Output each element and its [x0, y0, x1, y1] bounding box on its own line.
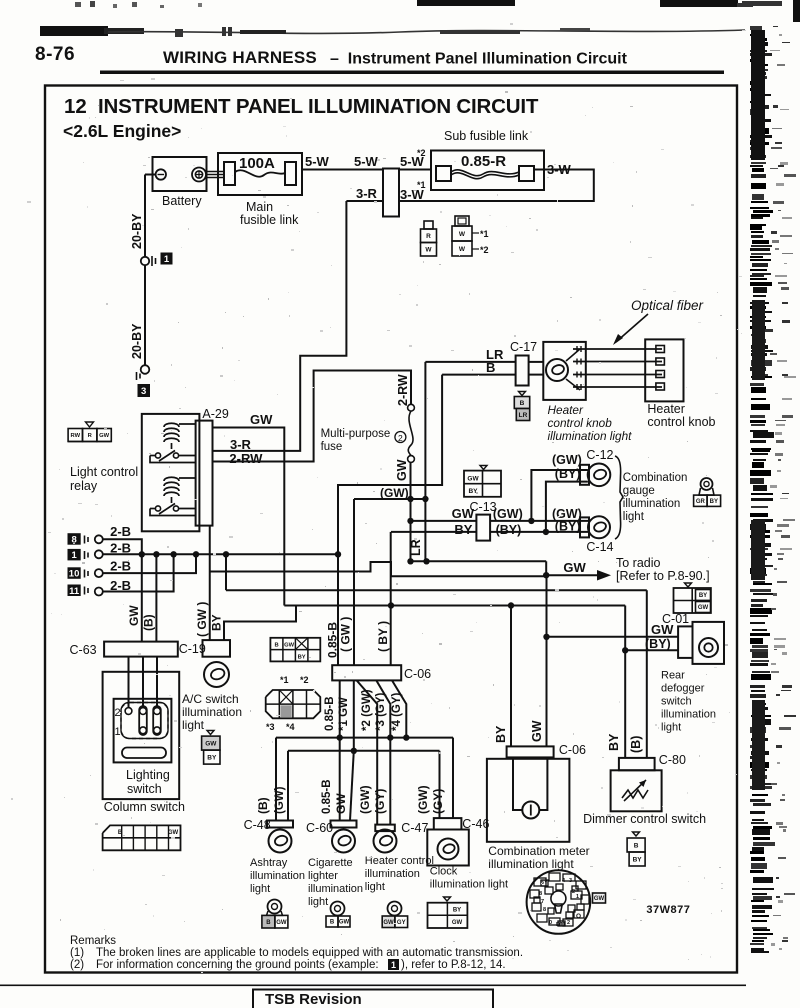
ground point 3: [141, 365, 150, 374]
svg-text:1: 1: [164, 254, 170, 265]
svg-text:Column switch: Column switch: [104, 800, 185, 814]
svg-text:GW: GW: [452, 920, 463, 926]
svg-text:switch: switch: [661, 696, 692, 708]
wire BY vertical to C-06: [390, 536, 392, 665]
relay A-29 box: [142, 414, 200, 531]
svg-text:Dimmer control switch: Dimmer control switch: [583, 812, 706, 826]
wire battery positive to main fusible link: [206, 171, 224, 173]
svg-text:B: B: [266, 920, 271, 926]
svg-text:GW: GW: [530, 720, 544, 742]
svg-text:B: B: [486, 360, 495, 375]
junction connector block: [383, 169, 399, 217]
svg-text:Cigarette: Cigarette: [308, 857, 353, 869]
svg-text:BY: BY: [699, 593, 707, 599]
svg-text:Rear: Rear: [661, 670, 685, 682]
wire LR to C-17: [425, 361, 515, 363]
svg-text:GW: GW: [594, 896, 605, 902]
svg-text:Light control: Light control: [70, 465, 138, 479]
connector icon R/W near junction: [424, 221, 433, 229]
svg-text:control knob: control knob: [647, 415, 715, 429]
wires C-63 to lighting switch: [128, 657, 130, 708]
svg-text:BY: BY: [207, 754, 217, 761]
svg-text:*1: *1: [480, 229, 489, 239]
wire 0.85-B vertical to C-06: [337, 554, 339, 665]
svg-text:light: light: [661, 722, 681, 734]
svg-text:(BY): (BY): [645, 637, 671, 651]
svg-text:GW: GW: [250, 412, 273, 427]
svg-text:GW: GW: [467, 476, 479, 483]
bulb rear defogger: [699, 638, 718, 657]
heater control knob box: [645, 339, 683, 401]
dimmer rheostat: [622, 790, 648, 798]
svg-text:2-RW: 2-RW: [396, 374, 410, 406]
steering column connector view: [527, 870, 591, 934]
wire BY up to C-12: [546, 482, 588, 532]
svg-text:C-12: C-12: [586, 448, 613, 462]
ground lead 10: [68, 567, 81, 579]
svg-text:2-B: 2-B: [110, 578, 131, 593]
svg-text:(BY): (BY): [555, 520, 581, 534]
ground lead 11: [68, 585, 81, 597]
svg-text:(GY): (GY): [431, 789, 445, 814]
svg-text:illumination: illumination: [623, 498, 681, 510]
ground lead 1: [68, 549, 81, 561]
svg-text:*2: *2: [480, 245, 489, 255]
svg-text:GW: GW: [127, 605, 141, 626]
svg-text:( GW ): ( GW ): [195, 602, 209, 637]
svg-text:defogger: defogger: [661, 683, 705, 695]
wire GW down to combination meter: [546, 576, 548, 746]
svg-text:Remarks: Remarks: [70, 935, 116, 947]
svg-text:*4: *4: [286, 722, 295, 732]
svg-text:Battery: Battery: [162, 194, 202, 208]
wires to cigarette lighter lamp C-60: [339, 738, 341, 821]
svg-text:12: 12: [64, 95, 87, 118]
svg-text:(B): (B): [256, 797, 270, 814]
svg-text:0.85-B: 0.85-B: [321, 779, 333, 814]
svg-text:illumination: illumination: [365, 868, 420, 880]
sub fusible link F2 0.85-R: [431, 151, 544, 191]
svg-text:O: O: [576, 913, 581, 920]
paper speckle noise: [331, 265, 332, 266]
svg-text:RW: RW: [71, 433, 81, 439]
main fusible link F1 100A: [218, 153, 302, 195]
svg-text:light: light: [365, 881, 385, 893]
svg-text:0.85-B: 0.85-B: [324, 696, 336, 731]
connector C-06 combination meter: [507, 746, 554, 757]
wires C-06 to lamp buses: [339, 680, 341, 737]
bulb combination meter: [522, 802, 539, 819]
svg-text:Sub fusible link: Sub fusible link: [444, 129, 529, 143]
svg-text:WIRING HARNESS: WIRING HARNESS: [163, 48, 317, 67]
svg-text:B: B: [275, 643, 279, 649]
wire 3-R to junction: [346, 200, 383, 202]
lamp bus 2: [288, 750, 440, 752]
ground icon B/LR below C-17: [519, 392, 526, 396]
wire GW up to C-12: [531, 470, 588, 521]
wire 2-B branch down: [225, 554, 227, 590]
ground point 1 on battery wire: [141, 257, 149, 265]
svg-text:C-01: C-01: [662, 612, 689, 626]
svg-text:*1: *1: [280, 675, 289, 685]
svg-text:*1 GW: *1 GW: [338, 697, 350, 731]
svg-text:Ashtray: Ashtray: [250, 857, 288, 869]
svg-text:2: 2: [567, 920, 570, 926]
svg-text:(GW): (GW): [274, 786, 286, 814]
svg-text:illumination: illumination: [661, 709, 716, 721]
lamp bus 1: [276, 737, 453, 739]
svg-text:A-29: A-29: [202, 407, 228, 421]
connector icon BY/GW near C-01: [685, 583, 692, 587]
svg-text:Optical fiber: Optical fiber: [631, 298, 704, 313]
svg-text:BY: BY: [298, 654, 306, 660]
svg-text:(B): (B): [142, 614, 156, 631]
svg-text:For information concerning the: For information concerning the ground po…: [96, 959, 379, 971]
relay contact 2: [155, 506, 160, 511]
svg-text:W: W: [459, 246, 466, 253]
wire B into C-63: [155, 554, 157, 641]
wire 20-BY battery to ground: [145, 174, 156, 176]
svg-text:11: 11: [69, 586, 80, 597]
svg-text:2-B: 2-B: [110, 541, 131, 556]
wires to clock lamp C-46: [452, 738, 454, 819]
svg-text:3-R: 3-R: [356, 186, 378, 201]
svg-text:(GW): (GW): [416, 785, 430, 814]
svg-text:Combination: Combination: [623, 472, 688, 484]
svg-text:1: 1: [71, 550, 77, 561]
svg-text:light: light: [308, 896, 328, 908]
svg-text:fuse: fuse: [321, 441, 343, 453]
svg-text:C-06: C-06: [404, 667, 431, 681]
svg-text:1: 1: [115, 726, 121, 738]
svg-text:8: 8: [539, 891, 542, 897]
svg-text:1: 1: [576, 894, 579, 900]
svg-text:B: B: [634, 842, 639, 849]
svg-text:C-17: C-17: [510, 340, 537, 354]
wire GW into C-19: [209, 526, 211, 641]
svg-text:2-RW: 2-RW: [229, 451, 263, 466]
svg-text:GY: GY: [397, 920, 406, 926]
svg-text:0.85-R: 0.85-R: [461, 153, 506, 170]
svg-text:C-47: C-47: [401, 821, 428, 835]
svg-text:20-BY: 20-BY: [130, 323, 144, 359]
svg-text:A/C switch: A/C switch: [182, 692, 239, 706]
svg-text:Clock: Clock: [430, 866, 458, 878]
ground lead 8: [68, 533, 81, 545]
svg-text:R: R: [426, 233, 431, 240]
svg-text:*4 (GY): *4 (GY): [391, 692, 403, 731]
wire 5-W junction to sub fusible link: [399, 169, 431, 171]
svg-text:5-W: 5-W: [354, 154, 379, 169]
lighting switch dashed link: [121, 703, 168, 739]
svg-text:Lighting: Lighting: [126, 768, 170, 782]
svg-text:LR: LR: [519, 412, 528, 419]
svg-text:TSB Revision: TSB Revision: [265, 991, 362, 1008]
svg-text:Heater: Heater: [548, 403, 584, 417]
svg-text:(GY): (GY): [373, 789, 387, 814]
svg-text:The broken lines are applicabl: The broken lines are applicable to model…: [96, 947, 523, 959]
svg-text:BY: BY: [453, 908, 461, 914]
svg-text:illumination: illumination: [308, 883, 363, 895]
svg-text:GW: GW: [334, 793, 348, 814]
svg-text:( BY ): ( BY ): [376, 621, 390, 652]
bracket combination gauge: [615, 456, 623, 539]
svg-text:20-BY: 20-BY: [130, 213, 144, 249]
svg-text:2-B: 2-B: [110, 559, 131, 574]
svg-text:(1): (1): [70, 947, 84, 959]
svg-text:8-76: 8-76: [35, 44, 75, 65]
TSB revision box: [253, 990, 493, 1008]
svg-text:BY: BY: [210, 614, 224, 631]
svg-text:LR: LR: [409, 539, 423, 556]
rear defogger switch box: [693, 622, 725, 664]
svg-text:10: 10: [69, 569, 80, 580]
svg-text:GR: GR: [696, 499, 706, 505]
svg-text:GW: GW: [205, 740, 217, 747]
socket icon below heater control: [388, 902, 402, 916]
diagram border frame: [45, 86, 737, 973]
svg-text:7: 7: [541, 899, 544, 905]
svg-text:BY: BY: [454, 522, 472, 537]
svg-text:BY: BY: [633, 856, 643, 863]
wire B to C-17: [442, 374, 515, 376]
connector icon 2x2 BY/GW below clock: [444, 897, 451, 901]
svg-text:5-W: 5-W: [305, 154, 330, 169]
small cell GW right of circle: [593, 893, 606, 903]
wire 2-B bus: [103, 553, 339, 555]
svg-text:BY: BY: [494, 725, 508, 743]
svg-text:37W877: 37W877: [646, 904, 690, 916]
svg-text:8: 8: [543, 907, 546, 913]
wire 5-W fusible link to junction: [302, 169, 383, 171]
svg-text:Main: Main: [246, 200, 273, 214]
ground icon GW/BY below A/C: [207, 731, 214, 735]
heater control knob illumination light box: [543, 342, 586, 400]
svg-text:[Refer to P.8-90.]: [Refer to P.8-90.]: [616, 569, 710, 583]
wire B to dimmer: [646, 590, 648, 758]
svg-text:2: 2: [398, 433, 403, 443]
connector icon B/GW/BY 4x2: [270, 638, 320, 662]
gauge socket icon GR/BY: [701, 478, 713, 490]
combination meter box: [487, 759, 570, 842]
svg-text:control knob: control knob: [548, 416, 613, 430]
connector icon GW/BY near C-13: [480, 466, 487, 470]
wires to ashtray lamp C-48: [275, 738, 277, 821]
wire GW to radio arrow: [546, 574, 601, 576]
wire BY to combination meter: [510, 606, 512, 747]
svg-text:<2.6L Engine>: <2.6L Engine>: [63, 121, 181, 141]
optical fibers: [573, 348, 662, 350]
header underline: [100, 71, 724, 75]
bulb A/C switch illumination: [204, 662, 229, 687]
svg-text:(GW): (GW): [358, 785, 372, 814]
svg-text:*3: *3: [266, 722, 275, 732]
wire GW through C-13 to C-14: [411, 520, 590, 522]
svg-text:B: B: [118, 830, 123, 836]
svg-text:W: W: [459, 231, 466, 238]
wire GW distribution to C-01: [226, 589, 647, 591]
svg-text:0: 0: [549, 920, 552, 926]
socket icon below ashtray: [268, 900, 282, 914]
svg-text:C-06: C-06: [559, 743, 586, 757]
svg-text:(GW): (GW): [493, 507, 523, 521]
wire GW main line A: [409, 560, 546, 562]
svg-text:3: 3: [141, 386, 146, 397]
svg-text:relay: relay: [70, 479, 98, 493]
svg-text:light: light: [182, 718, 205, 732]
svg-text:GW: GW: [168, 830, 179, 836]
svg-text:light: light: [250, 883, 270, 895]
svg-text:BY: BY: [710, 499, 718, 505]
relay contact 1: [155, 453, 160, 458]
svg-text:*2: *2: [300, 675, 309, 685]
svg-text:0.85-B: 0.85-B: [326, 622, 340, 658]
svg-text:2-B: 2-B: [110, 524, 131, 539]
dimmer control switch box: [611, 770, 662, 811]
svg-text:3: 3: [569, 878, 572, 884]
svg-text:GW: GW: [698, 605, 709, 611]
svg-text:GW: GW: [563, 560, 586, 575]
lighting switch slot: [122, 748, 166, 759]
svg-text:Combination meter: Combination meter: [488, 844, 589, 858]
svg-text:C-60: C-60: [306, 821, 333, 835]
scan noise right dark band: [751, 30, 765, 160]
svg-text:illumination: illumination: [250, 870, 305, 882]
svg-text:illumination: illumination: [182, 705, 242, 719]
svg-text:illumination light: illumination light: [548, 429, 633, 443]
svg-text:(BY): (BY): [496, 523, 522, 537]
svg-text:Heater: Heater: [647, 402, 685, 416]
svg-text:*1: *1: [417, 180, 426, 190]
svg-text:C-63: C-63: [70, 643, 97, 657]
svg-text:B: B: [520, 400, 525, 407]
svg-text:switch: switch: [127, 782, 162, 796]
connector C-06 instrument harness: [332, 665, 401, 680]
bulb heater control knob illumination: [546, 359, 568, 381]
lighting switch box: [114, 699, 172, 763]
svg-text:lighter: lighter: [308, 870, 338, 882]
wire GW vertical to C-06: [353, 499, 355, 665]
relay coil 1: [164, 423, 179, 427]
svg-text:( GW ): ( GW ): [339, 617, 353, 652]
wire BY distribution: [224, 606, 296, 641]
wire GW fuse down: [410, 462, 412, 561]
svg-text:2: 2: [572, 889, 575, 895]
svg-text:GW: GW: [383, 920, 394, 926]
wire GW jog from relay branch to radio junction: [210, 562, 546, 576]
svg-text:W: W: [425, 247, 432, 254]
svg-text:1: 1: [391, 960, 396, 970]
wire BY through C-13 to C-14: [391, 531, 589, 533]
svg-text:), refer to P.8-12, 14.: ), refer to P.8-12, 14.: [401, 959, 506, 971]
scan noise top bars: [417, 0, 515, 6]
wire GW into C-63: [141, 554, 143, 641]
wire B down from C-17 to ground bus: [338, 375, 442, 555]
svg-text:(BY): (BY): [555, 467, 581, 481]
light control relay connector icon: [86, 422, 94, 427]
svg-text:*2 (GW): *2 (GW): [361, 689, 373, 731]
svg-text:C-80: C-80: [659, 753, 686, 767]
column switch connector grid: [103, 825, 181, 850]
wire BY/GW into C-01: [624, 606, 626, 758]
connector icon W/W with ref marks: [455, 216, 469, 226]
svg-text:fusible link: fusible link: [240, 213, 299, 227]
svg-text:To radio: To radio: [616, 556, 661, 570]
svg-text:GW: GW: [276, 920, 287, 926]
svg-text:(GW): (GW): [552, 453, 582, 467]
svg-text:light: light: [623, 511, 645, 523]
svg-text:3-R: 3-R: [230, 437, 252, 452]
svg-text:D11: D11: [556, 922, 566, 928]
svg-text:Heater control: Heater control: [365, 855, 434, 867]
socket icon below cigarette lighter: [331, 902, 345, 916]
svg-text:– Instrument Panel Illuminati: – Instrument Panel Illumination Circuit: [330, 51, 628, 68]
ground icon B/BY below dimmer: [633, 832, 640, 836]
wire LR down from C-17: [424, 362, 426, 561]
column switch box: [103, 672, 180, 799]
svg-text:illumination light: illumination light: [488, 857, 574, 871]
svg-text:GW: GW: [99, 433, 110, 439]
svg-text:INSTRUMENT PANEL ILLUMINATION: INSTRUMENT PANEL ILLUMINATION CIRCUIT: [98, 95, 539, 118]
battery B1: [153, 157, 207, 191]
svg-text:GW: GW: [395, 459, 409, 481]
svg-text:(2): (2): [70, 959, 84, 971]
svg-text:BY: BY: [607, 733, 621, 751]
svg-text:Multi-purpose: Multi-purpose: [321, 428, 391, 440]
svg-text:(B): (B): [629, 736, 643, 753]
svg-text:*3 (GY): *3 (GY): [375, 692, 387, 731]
svg-text:illumination light: illumination light: [430, 879, 508, 891]
bottom separator line: [0, 985, 746, 987]
scan noise right edge barcode: [750, 26, 762, 30]
svg-text:*2: *2: [417, 148, 426, 158]
relay coil 2: [164, 477, 179, 481]
svg-text:(GW): (GW): [380, 486, 409, 500]
svg-text:B: B: [330, 920, 335, 926]
svg-text:GW: GW: [339, 920, 350, 926]
svg-text:2: 2: [115, 707, 121, 719]
svg-text:GW: GW: [284, 643, 295, 649]
arrow optical fiber: [616, 314, 648, 342]
svg-text:gauge: gauge: [623, 485, 655, 497]
ground example black box: [388, 959, 399, 970]
svg-text:C-14: C-14: [586, 540, 613, 554]
svg-text:100A: 100A: [239, 155, 275, 172]
